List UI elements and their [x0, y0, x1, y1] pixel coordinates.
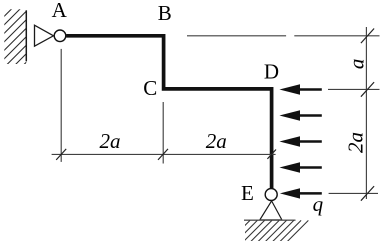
top extension line from B (segment 1)	[187, 35, 286, 37]
pin support triangle at E	[260, 201, 282, 220]
svg-text:2a: 2a	[100, 129, 121, 153]
right vertical dimension line (a + 2a)	[365, 27, 367, 199]
tick at A on bottom dimension line	[56, 149, 66, 160]
tick at E member on bottom dimension line	[267, 150, 276, 159]
pin support triangle at A	[35, 25, 54, 46]
top extension line (segment 2)	[294, 35, 379, 37]
svg-text:2a: 2a	[206, 129, 227, 153]
distributed load arrow 4	[279, 162, 321, 172]
ground line at E	[244, 219, 296, 221]
svg-text:A: A	[52, 0, 68, 22]
svg-text:a: a	[345, 59, 369, 70]
tick at D level on right dimension line	[361, 82, 374, 97]
wall line at support A	[25, 10, 27, 61]
frame members A-B-C-D-E (thick)	[66, 36, 271, 188]
svg-text:q: q	[313, 192, 324, 216]
tick at top of right dimension line	[361, 29, 374, 44]
distributed load arrow 5 (at E)	[280, 188, 322, 198]
bottom dimension line (2a + 2a)	[52, 153, 276, 155]
hinge circle at A	[54, 30, 66, 42]
wall hatching at support A	[0, 5, 84, 70]
svg-text:D: D	[264, 60, 279, 84]
dimension extension line below C	[162, 102, 164, 164]
svg-text:B: B	[158, 1, 172, 25]
distributed load arrow 3	[279, 136, 321, 146]
svg-text:E: E	[241, 181, 254, 205]
hinge circle at E	[265, 189, 277, 201]
tick at C on bottom dimension line	[158, 149, 168, 160]
tick at E level on right dimension line	[361, 186, 374, 201]
distributed load arrow 2	[279, 110, 321, 120]
svg-text:C: C	[143, 76, 157, 100]
right extension line at D level	[328, 88, 380, 90]
ground hatching at E	[229, 220, 309, 242]
dimension extension line below A	[60, 49, 62, 162]
distributed load arrow 1 (at D)	[279, 84, 321, 94]
right extension line at E level	[329, 192, 378, 194]
svg-text:2a: 2a	[344, 132, 368, 153]
